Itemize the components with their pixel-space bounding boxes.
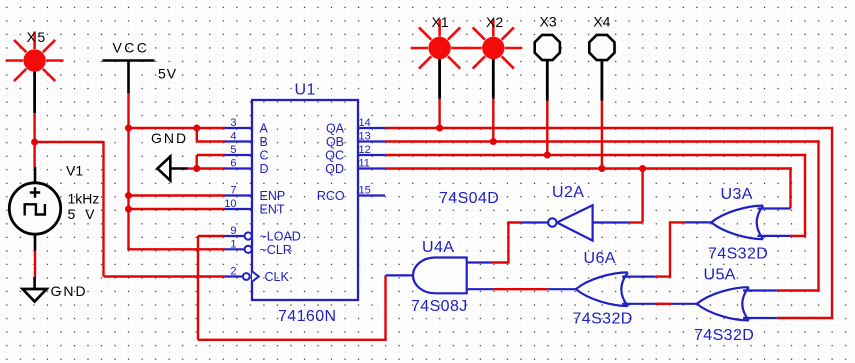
svg-text:CLK: CLK: [265, 270, 290, 284]
svg-text:U4A: U4A: [422, 239, 454, 256]
lamp X4 lead black segment: [601, 60, 604, 101]
pin 3 stub (A): [225, 127, 253, 129]
wire: clock net horizontal to CLK pin 2: [104, 275, 225, 277]
junction VCC rail at ENT row: [125, 206, 132, 213]
pin 6 stub (D): [225, 167, 253, 169]
wire: QC net vertical down: [804, 154, 806, 236]
clock source V1: [9, 167, 60, 251]
AND gate U4A 74S08J: [386, 258, 493, 294]
pin 9 stub (~LOAD) with bubble: [225, 235, 245, 237]
svg-text:X5: X5: [27, 29, 47, 45]
wire: ~LOAD feedback to pin 9: [198, 235, 225, 237]
svg-text:13: 13: [359, 131, 371, 143]
wire: QD branch vertical to U2A input: [641, 169, 643, 223]
wire: U2A output red segment: [492, 223, 521, 263]
svg-text:74S32D: 74S32D: [573, 311, 633, 328]
svg-text:74S04D: 74S04D: [439, 190, 499, 207]
svg-text:A: A: [260, 122, 269, 136]
pin 1 stub (~CLR) with bubble: [225, 248, 245, 250]
lamp X3 (off): [535, 35, 560, 60]
wire: QD branch horizontal to U2A input stub: [629, 221, 643, 223]
svg-text:X3: X3: [540, 14, 557, 30]
svg-text:7: 7: [230, 185, 236, 197]
wire: U3A output red segment down to U6A upper input: [656, 222, 685, 276]
wire: ~LOAD feedback vertical: [197, 236, 199, 340]
svg-text:D: D: [260, 162, 269, 176]
pin 15 stub (RCO) unconnected: [358, 194, 385, 196]
svg-text:1: 1: [230, 238, 236, 250]
svg-text:2: 2: [230, 266, 236, 278]
wire: X4 lamp red lead: [601, 98, 603, 169]
wire: QD net pin 11 horizontal: [385, 167, 792, 169]
junction QA net and X1 lead: [436, 125, 443, 132]
svg-text:X1: X1: [432, 14, 449, 30]
svg-text:3: 3: [230, 117, 236, 129]
svg-text:74160N: 74160N: [278, 308, 336, 325]
svg-text:X4: X4: [593, 14, 610, 30]
junction QC net and X3 lead: [544, 152, 551, 159]
svg-text:U3A: U3A: [721, 186, 753, 203]
wire: V1 positive terminal red segment: [33, 142, 35, 167]
svg-text:5V: 5V: [158, 66, 177, 82]
wire: QA net to U5A lower input: [777, 317, 833, 319]
svg-text:~LOAD: ~LOAD: [260, 230, 301, 244]
svg-text:15: 15: [359, 185, 371, 197]
wire: X1 lamp red lead: [438, 98, 440, 128]
svg-text:QC: QC: [325, 149, 344, 163]
wire: U4A output vertical drop: [384, 275, 386, 341]
OR gate U6A 74S32D: [548, 272, 655, 306]
svg-text:6: 6: [230, 158, 236, 170]
wire: QA net vertical down right edge: [831, 127, 833, 318]
wire: ground to pin 5 (C): [197, 154, 225, 156]
svg-text:9: 9: [230, 225, 236, 237]
wire: bottom feedback horizontal from U4A output: [198, 339, 386, 341]
svg-text:RCO: RCO: [317, 189, 345, 203]
wire: X3 lamp red lead: [546, 98, 548, 155]
junction ground tee at pin 6 row: [193, 165, 200, 172]
lamp X1 (lit): [411, 19, 469, 69]
junction at X5 / V1 / clock net: [31, 139, 38, 146]
svg-text:QB: QB: [326, 135, 344, 149]
pin 2 stub (CLK) with bubble and clock wedge: [225, 275, 244, 277]
pin 7 stub (ENP): [225, 194, 253, 196]
svg-text:U6A: U6A: [584, 250, 616, 267]
OR gate U5A 74S32D: [671, 287, 777, 320]
junction VCC rail at ENP row: [125, 192, 132, 199]
svg-text:1kHz: 1kHz: [68, 191, 100, 207]
pin 4 stub (B): [225, 140, 253, 142]
svg-text:74S32D: 74S32D: [694, 327, 754, 344]
wire: VCC rail to pin 1 (~CLR): [127, 248, 224, 250]
junction pin3/pin4 branch: [193, 125, 200, 132]
wire: QC net pin 12 horizontal: [385, 154, 806, 156]
junction VCC rail at pin 3 row: [125, 125, 132, 132]
pin 11 stub (QD): [358, 167, 385, 169]
wire: QC net to U3A lower input: [791, 235, 807, 237]
wire: branch pin3 to pin4: [196, 128, 198, 142]
wire: clock net vertical riser down: [102, 141, 104, 277]
wire: X2 lamp red lead: [492, 98, 494, 142]
svg-text:~CLR: ~CLR: [260, 243, 292, 257]
wire: branch to pin 4 (B): [197, 140, 225, 142]
wire: QB net to U5A upper input: [777, 289, 820, 291]
pin 5 stub (C): [225, 154, 253, 156]
wire: X5 lead red segment to clock net: [33, 112, 35, 142]
VCC power symbol: [103, 40, 155, 94]
pin 10 stub (ENT): [225, 208, 253, 210]
pin 13 stub (QB): [358, 140, 385, 142]
lamp X2 (lit): [464, 19, 522, 69]
svg-text:VCC: VCC: [113, 40, 150, 56]
svg-text:14: 14: [359, 117, 371, 129]
svg-text:GND: GND: [151, 130, 188, 146]
lamp X2 lead black segment: [492, 59, 495, 99]
wire: U5A output red segment to U6A lower input: [656, 303, 671, 305]
OR gate U3A 74S32D: [685, 206, 791, 240]
svg-text:74S08J: 74S08J: [411, 298, 468, 315]
wire: V1 negative lead red segment: [34, 250, 36, 277]
svg-text:X2: X2: [486, 14, 503, 30]
lamp X5 lead black segment: [33, 71, 36, 113]
lamp X4 (off): [589, 35, 614, 60]
wire: ground to pin 6 (D): [197, 167, 225, 169]
junction QB net and X2 lead: [490, 138, 497, 145]
svg-text:ENP: ENP: [260, 189, 286, 203]
svg-text:12: 12: [359, 144, 371, 156]
svg-text:B: B: [260, 135, 268, 149]
svg-text:U2A: U2A: [552, 184, 584, 201]
svg-text:5 V: 5 V: [68, 206, 98, 222]
junction QD net and U2A branch: [639, 165, 646, 172]
pin 14 stub (QA): [358, 127, 385, 129]
wire: VCC to pin 10 (ENT): [127, 208, 225, 210]
pin 12 stub (QC): [358, 154, 385, 156]
svg-text:V1: V1: [66, 163, 83, 179]
svg-text:5: 5: [230, 144, 236, 156]
svg-text:74S32D: 74S32D: [708, 246, 768, 263]
ground symbol GND at chip inputs: [151, 130, 188, 181]
lamp X5 (lit): [6, 32, 64, 82]
wire: VCC to pin 7 (ENP): [127, 194, 225, 196]
wire: ground tee vertical to pin 5 row: [195, 155, 197, 170]
svg-text:4: 4: [230, 131, 236, 143]
svg-text:GND: GND: [51, 283, 88, 299]
lamp X1 lead black segment: [438, 59, 441, 99]
wire: QA net pin 14 horizontal: [385, 127, 833, 129]
svg-text:U5A: U5A: [704, 267, 736, 284]
ground symbol GND below V1: [23, 277, 88, 302]
wire: VCC vertical rail: [127, 92, 129, 249]
svg-text:10: 10: [224, 198, 236, 210]
wire: QD net vertical to U3A upper input: [789, 167, 791, 208]
svg-text:ENT: ENT: [260, 203, 285, 217]
svg-text:QA: QA: [326, 122, 345, 136]
svg-text:C: C: [260, 149, 269, 163]
wire: ground tee red segment: [187, 167, 197, 169]
svg-text:U1: U1: [295, 82, 316, 99]
wire: U6A output red segment to U4A lower input: [493, 288, 548, 290]
wire: QB net pin 13 horizontal: [385, 140, 820, 142]
svg-text:11: 11: [359, 158, 370, 170]
junction QD net and X4 lead: [598, 165, 605, 172]
counter U1 74160N body: [252, 100, 358, 300]
wire: QB net vertical down: [817, 140, 819, 290]
wire: clock net horizontal from X5/V1 tee to vertical riser: [35, 141, 104, 143]
wire: VCC to pin 3 (A): [127, 127, 225, 129]
svg-text:QD: QD: [325, 162, 344, 176]
lamp X3 lead black segment: [546, 60, 549, 101]
inverter U2A 74S04D: [521, 205, 629, 240]
